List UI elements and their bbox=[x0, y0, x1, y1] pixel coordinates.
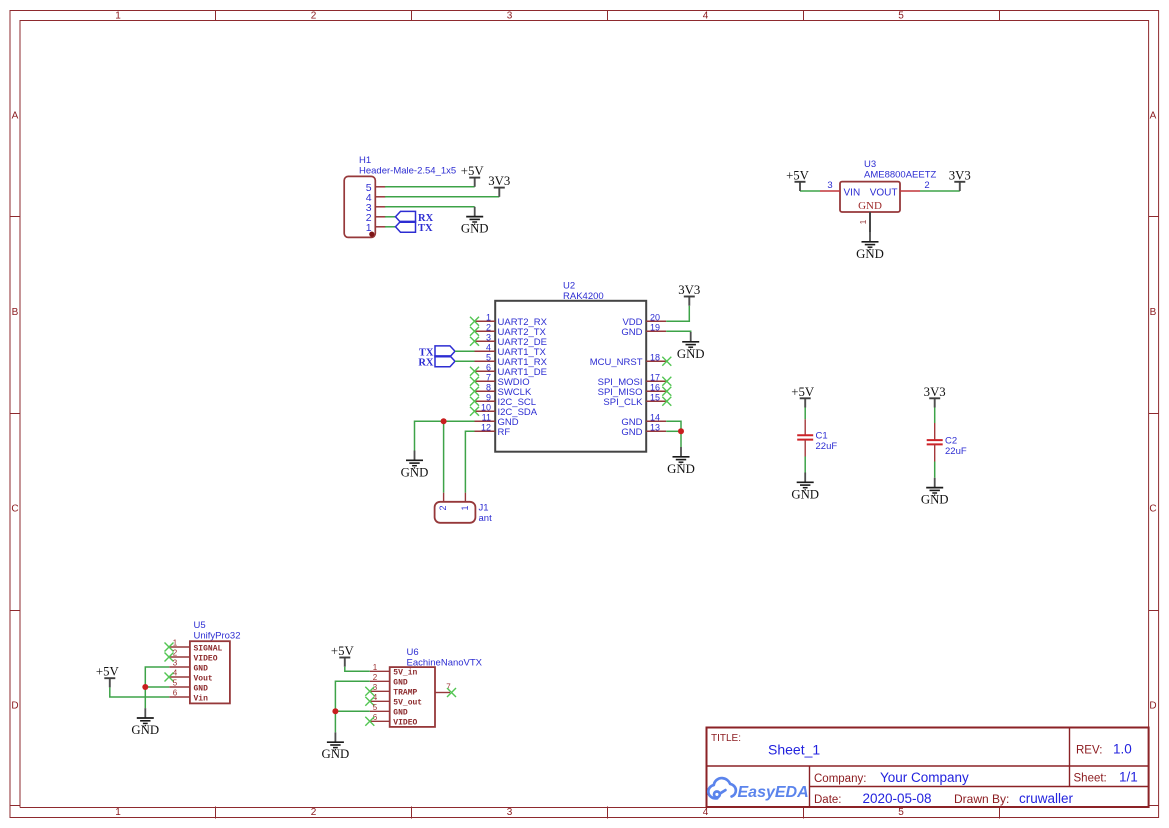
svg-text:5: 5 bbox=[173, 679, 178, 688]
U2 pin 4 UART1_TX bbox=[475, 342, 547, 358]
U6 pin 6 VIDEO bbox=[365, 713, 417, 728]
title block logo cell divider bbox=[809, 766, 811, 807]
svg-text:SIGNAL: SIGNAL bbox=[194, 644, 223, 653]
svg-text:GND: GND bbox=[858, 200, 882, 212]
ground flag (U5) bbox=[131, 708, 159, 737]
svg-text:11: 11 bbox=[482, 412, 491, 422]
svg-text:B: B bbox=[1150, 307, 1157, 318]
svg-text:1: 1 bbox=[858, 219, 868, 224]
svg-text:3: 3 bbox=[507, 11, 513, 22]
svg-text:4: 4 bbox=[486, 342, 491, 352]
title block REV column divider bbox=[1069, 728, 1071, 787]
svg-text:GND: GND bbox=[621, 327, 642, 338]
power flag +5V (U3) bbox=[786, 168, 810, 191]
EasyEDA logo cloud icon bbox=[708, 778, 736, 798]
svg-text:5V_in: 5V_in bbox=[393, 669, 417, 678]
H1 pin 1 bbox=[366, 222, 386, 234]
net port RX (U2) bbox=[418, 356, 455, 368]
U3 pin 2 bbox=[900, 180, 930, 191]
svg-text:3: 3 bbox=[173, 659, 178, 668]
frame column numbers bottom bbox=[115, 807, 904, 818]
svg-text:22uF: 22uF bbox=[945, 446, 967, 457]
svg-text:VIDEO: VIDEO bbox=[393, 719, 417, 728]
svg-text:SPI_CLK: SPI_CLK bbox=[603, 397, 643, 408]
ground flag (U2 pin19) bbox=[677, 332, 705, 361]
title block line under company row bbox=[810, 786, 1149, 788]
svg-text:Sheet:: Sheet: bbox=[1074, 773, 1107, 785]
svg-text:GND: GND bbox=[921, 493, 949, 507]
svg-text:12: 12 bbox=[481, 422, 491, 432]
wire H1.2 to RX bbox=[385, 216, 396, 218]
svg-text:2: 2 bbox=[486, 322, 491, 332]
H1 pin 5 bbox=[366, 182, 386, 194]
svg-text:VOUT: VOUT bbox=[870, 188, 898, 199]
svg-text:3V3: 3V3 bbox=[678, 283, 700, 297]
U2 pin 2 UART2_TX bbox=[470, 322, 547, 338]
svg-text:1: 1 bbox=[486, 312, 491, 322]
svg-text:+5V: +5V bbox=[786, 168, 810, 182]
U2 pin 12 RF bbox=[475, 422, 511, 438]
U6 pin 4 5V_out bbox=[365, 693, 422, 708]
wire U3.3 to +5V bbox=[800, 190, 820, 192]
wire C2 to GND bbox=[934, 462, 936, 478]
svg-text:A: A bbox=[1150, 111, 1157, 122]
title block outline bbox=[707, 728, 1149, 808]
svg-text:GND: GND bbox=[856, 247, 884, 261]
svg-text:20: 20 bbox=[650, 312, 660, 322]
capacitor C1 bbox=[797, 419, 813, 456]
svg-text:16: 16 bbox=[650, 382, 660, 392]
power flag +5V (H1) bbox=[461, 164, 485, 187]
wire +5V to U6.1 bbox=[345, 667, 370, 672]
svg-text:3V3: 3V3 bbox=[949, 168, 971, 182]
ground flag (U2 pins13-14) bbox=[667, 447, 695, 476]
svg-text:1.0: 1.0 bbox=[1113, 742, 1132, 757]
svg-text:+5V: +5V bbox=[461, 164, 485, 178]
U2 pin 1 UART2_RX bbox=[470, 312, 548, 328]
svg-text:Sheet_1: Sheet_1 bbox=[768, 742, 820, 758]
U2 pin 20 VDD bbox=[622, 312, 666, 328]
U2 pin 14 GND bbox=[621, 412, 666, 428]
U3 pin 3 bbox=[820, 180, 840, 191]
svg-text:TITLE:: TITLE: bbox=[711, 733, 741, 744]
wire TX to U2.4 bbox=[455, 350, 475, 352]
frame row letters left bbox=[11, 111, 18, 712]
svg-text:1: 1 bbox=[115, 11, 121, 22]
wire H1.4 to 3V3 bbox=[385, 196, 499, 198]
ground flag (U2 pin11) bbox=[401, 451, 429, 480]
svg-text:4: 4 bbox=[703, 11, 709, 22]
regulator U3 body bbox=[840, 182, 900, 212]
svg-text:19: 19 bbox=[650, 322, 660, 332]
svg-text:1/1: 1/1 bbox=[1119, 770, 1138, 785]
U6 pin 7 bbox=[435, 683, 456, 698]
wire U2.13 to GND net bbox=[666, 430, 681, 432]
svg-text:17: 17 bbox=[650, 372, 660, 382]
J1 pin 2 bbox=[438, 493, 448, 511]
svg-text:3V3: 3V3 bbox=[488, 174, 510, 188]
svg-text:GND: GND bbox=[194, 684, 209, 693]
svg-text:1: 1 bbox=[115, 807, 121, 818]
svg-text:+5V: +5V bbox=[791, 385, 815, 399]
frame column ticks top bbox=[216, 11, 1000, 21]
frame row letters right bbox=[1149, 111, 1156, 712]
svg-text:15: 15 bbox=[650, 392, 660, 402]
svg-text:GND: GND bbox=[621, 427, 642, 438]
wire U2.11 GND left bbox=[415, 421, 475, 450]
wire U2.19 to GND bbox=[666, 331, 691, 332]
U2 pin 8 SWCLK bbox=[470, 382, 532, 398]
H1 pin 2 bbox=[366, 212, 386, 224]
U2 pin 10 I2C_SDA bbox=[470, 402, 538, 418]
svg-text:U3: U3 bbox=[864, 159, 876, 170]
svg-text:U2: U2 bbox=[563, 281, 575, 292]
svg-text:GND: GND bbox=[791, 487, 819, 501]
svg-text:GND: GND bbox=[677, 347, 705, 361]
svg-text:5: 5 bbox=[898, 11, 904, 22]
svg-text:Header-Male-2.54_1x5: Header-Male-2.54_1x5 bbox=[359, 166, 456, 177]
frame column numbers top bbox=[115, 11, 904, 22]
power flag +5V (U6) bbox=[331, 644, 355, 667]
svg-text:1: 1 bbox=[366, 222, 372, 234]
U6 pin 5 GND bbox=[370, 703, 408, 718]
U2 pin 16 SPI_MISO bbox=[598, 382, 672, 398]
svg-text:H1: H1 bbox=[359, 155, 371, 166]
svg-text:J1: J1 bbox=[479, 503, 489, 514]
svg-text:D: D bbox=[11, 701, 18, 712]
svg-text:RX: RX bbox=[418, 357, 434, 368]
svg-text:2: 2 bbox=[924, 180, 929, 191]
wire U2.20 to 3V3 bbox=[666, 306, 689, 322]
title block line under title row bbox=[707, 765, 1149, 767]
svg-text:TX: TX bbox=[418, 223, 433, 234]
net port RX (H1) bbox=[396, 211, 434, 223]
U5 pin 6 Vin bbox=[169, 689, 208, 704]
module U2 body bbox=[495, 301, 646, 452]
svg-text:C: C bbox=[11, 504, 18, 515]
svg-text:REV:: REV: bbox=[1076, 745, 1102, 757]
wire H1.3 to GND bbox=[385, 206, 475, 208]
wire U2.12 RF to J1.1 bbox=[465, 431, 474, 492]
svg-text:TRAMP: TRAMP bbox=[393, 689, 417, 698]
J1 pin 1 bbox=[460, 493, 470, 511]
U2 pin 19 GND bbox=[621, 322, 666, 338]
U6 pin 2 GND bbox=[370, 673, 408, 688]
svg-text:GND: GND bbox=[393, 679, 408, 688]
wire U5.5 GND bbox=[145, 686, 169, 688]
svg-text:18: 18 bbox=[650, 352, 660, 362]
svg-text:13: 13 bbox=[650, 422, 660, 432]
U5 pin 3 GND bbox=[169, 659, 208, 674]
U2 pin 17 SPI_MOSI bbox=[598, 372, 672, 388]
svg-text:U5: U5 bbox=[194, 620, 206, 631]
svg-text:Your Company: Your Company bbox=[880, 770, 969, 785]
svg-text:U6: U6 bbox=[407, 647, 419, 658]
svg-text:3: 3 bbox=[827, 180, 832, 191]
U6 pin 3 TRAMP bbox=[365, 683, 417, 698]
header H1 pin1 marker dot bbox=[369, 232, 374, 237]
svg-text:5: 5 bbox=[898, 807, 904, 818]
svg-text:22uF: 22uF bbox=[816, 441, 838, 452]
svg-text:Vin: Vin bbox=[194, 694, 209, 703]
header H1 body bbox=[344, 176, 375, 237]
svg-text:cruwaller: cruwaller bbox=[1019, 791, 1074, 806]
svg-text:Vout: Vout bbox=[194, 674, 213, 683]
svg-text:A: A bbox=[12, 111, 19, 122]
svg-text:RF: RF bbox=[498, 427, 511, 438]
junction U5 GND bbox=[142, 684, 148, 690]
svg-text:2020-05-08: 2020-05-08 bbox=[863, 791, 932, 806]
U2 pin 11 GND bbox=[475, 412, 519, 428]
svg-text:D: D bbox=[1149, 701, 1156, 712]
svg-text:2: 2 bbox=[311, 807, 317, 818]
svg-text:6: 6 bbox=[486, 362, 491, 372]
U2 pin 5 UART1_RX bbox=[475, 352, 548, 368]
svg-text:GND: GND bbox=[401, 465, 429, 479]
net port TX (H1) bbox=[396, 221, 434, 233]
ground flag (C1) bbox=[791, 473, 819, 502]
H1 pin 3 bbox=[366, 202, 386, 214]
U2 pin 15 SPI_CLK bbox=[603, 392, 671, 408]
svg-text:5: 5 bbox=[486, 352, 491, 362]
svg-text:3V3: 3V3 bbox=[924, 385, 946, 399]
svg-text:C: C bbox=[1149, 504, 1156, 515]
wire U6.2 GND bbox=[335, 681, 369, 732]
svg-text:8: 8 bbox=[486, 382, 491, 392]
frame column ticks bottom bbox=[216, 807, 1000, 819]
ground flag (U6) bbox=[322, 732, 350, 761]
U2 pin 9 I2C_SCL bbox=[470, 392, 536, 408]
svg-text:GND: GND bbox=[322, 747, 350, 761]
svg-text:Date:: Date: bbox=[814, 794, 842, 806]
junction U2.11 / J1.2 bbox=[441, 418, 447, 424]
U5 pin 4 Vout bbox=[165, 669, 213, 684]
frame row ticks left bbox=[10, 217, 20, 611]
wire H1.5 to +5V bbox=[385, 186, 475, 188]
wire +5V to U5.6 bbox=[110, 687, 170, 697]
wire U3.2 to 3V3 bbox=[920, 190, 960, 192]
svg-text:6: 6 bbox=[173, 689, 178, 698]
svg-text:GND: GND bbox=[393, 709, 408, 718]
svg-text:3: 3 bbox=[507, 807, 513, 818]
svg-text:VIDEO: VIDEO bbox=[194, 654, 218, 663]
U6 pin 1 5V_in bbox=[370, 663, 418, 678]
U2 pin 7 SWDIO bbox=[470, 372, 530, 388]
ground flag (U3) bbox=[856, 232, 884, 261]
svg-text:14: 14 bbox=[650, 412, 660, 422]
U3 pin 1 (GND) bbox=[858, 212, 870, 232]
svg-text:GND: GND bbox=[131, 723, 159, 737]
svg-text:5V_out: 5V_out bbox=[393, 699, 422, 708]
svg-text:AME8800AEETZ: AME8800AEETZ bbox=[864, 170, 937, 181]
frame row D bottom margin tick left bbox=[10, 805, 20, 807]
svg-text:UnifyPro32: UnifyPro32 bbox=[194, 631, 241, 642]
svg-text:GND: GND bbox=[194, 664, 209, 673]
wire H1.1 to TX bbox=[385, 226, 396, 228]
svg-text:3: 3 bbox=[486, 332, 491, 342]
svg-text:Drawn By:: Drawn By: bbox=[954, 792, 1009, 806]
svg-text:4: 4 bbox=[703, 807, 709, 818]
U2 pin 13 GND bbox=[621, 422, 666, 438]
svg-text:EasyEDA: EasyEDA bbox=[738, 784, 809, 801]
wire junction to J1.2 bbox=[443, 421, 445, 492]
power flag 3V3 (H1) bbox=[488, 174, 510, 197]
svg-text:10: 10 bbox=[481, 402, 491, 412]
H1 pin 4 bbox=[366, 192, 386, 204]
wire RX to U2.5 bbox=[455, 360, 475, 362]
svg-text:1: 1 bbox=[460, 505, 470, 510]
svg-text:C1: C1 bbox=[816, 431, 828, 442]
junction U2 right GND bbox=[678, 428, 684, 434]
ground flag (H1) bbox=[461, 207, 489, 236]
U2 pin 18 MCU_NRST bbox=[590, 352, 672, 368]
U2 pin 3 UART2_DE bbox=[470, 332, 547, 348]
wire 3V3 to C2 bbox=[934, 408, 936, 424]
wire U2.14 to GND net bbox=[666, 421, 681, 431]
svg-text:5: 5 bbox=[373, 703, 378, 712]
svg-text:GND: GND bbox=[667, 462, 695, 476]
svg-text:C2: C2 bbox=[945, 436, 957, 447]
wire U6.5 GND bbox=[335, 710, 369, 712]
wire junction down to GND bbox=[680, 431, 682, 447]
svg-text:VIN: VIN bbox=[844, 188, 861, 199]
svg-text:ant: ant bbox=[479, 513, 493, 524]
U5 pin 5 GND bbox=[169, 679, 208, 694]
svg-text:7: 7 bbox=[486, 372, 491, 382]
connector J1 body bbox=[435, 502, 476, 523]
svg-text:+5V: +5V bbox=[331, 644, 355, 658]
svg-text:Company:: Company: bbox=[814, 773, 866, 785]
module U6 body bbox=[390, 667, 435, 727]
U5 pin 2 VIDEO bbox=[165, 649, 218, 664]
power flag 3V3 (U3) bbox=[949, 168, 971, 191]
svg-text:GND: GND bbox=[461, 222, 489, 236]
ground flag (C2) bbox=[921, 478, 949, 507]
power flag 3V3 (U2) bbox=[678, 283, 700, 306]
wire U5.3 GND bbox=[145, 667, 169, 708]
U5 pin 1 SIGNAL bbox=[165, 639, 223, 654]
U2 pin 6 UART1_DE bbox=[470, 362, 547, 378]
svg-text:1: 1 bbox=[373, 663, 378, 672]
svg-text:MCU_NRST: MCU_NRST bbox=[590, 357, 643, 368]
wire C1 to GND bbox=[804, 457, 806, 473]
power flag 3V3 (C2) bbox=[924, 385, 946, 408]
wire +5V to C1 bbox=[804, 408, 806, 420]
svg-text:2: 2 bbox=[438, 505, 448, 510]
power flag +5V (U5) bbox=[96, 665, 120, 688]
svg-text:B: B bbox=[12, 307, 19, 318]
module U5 body bbox=[190, 641, 230, 703]
svg-text:9: 9 bbox=[486, 392, 491, 402]
frame row ticks right bbox=[1149, 217, 1159, 611]
junction U6 GND bbox=[332, 708, 338, 714]
capacitor C2 bbox=[927, 423, 943, 462]
frame row D bottom margin tick right bbox=[1149, 805, 1159, 807]
svg-text:2: 2 bbox=[311, 11, 317, 22]
svg-text:+5V: +5V bbox=[96, 665, 120, 679]
svg-text:2: 2 bbox=[373, 673, 378, 682]
power flag +5V (C1) bbox=[791, 385, 815, 408]
net port TX (U2) bbox=[419, 346, 455, 358]
